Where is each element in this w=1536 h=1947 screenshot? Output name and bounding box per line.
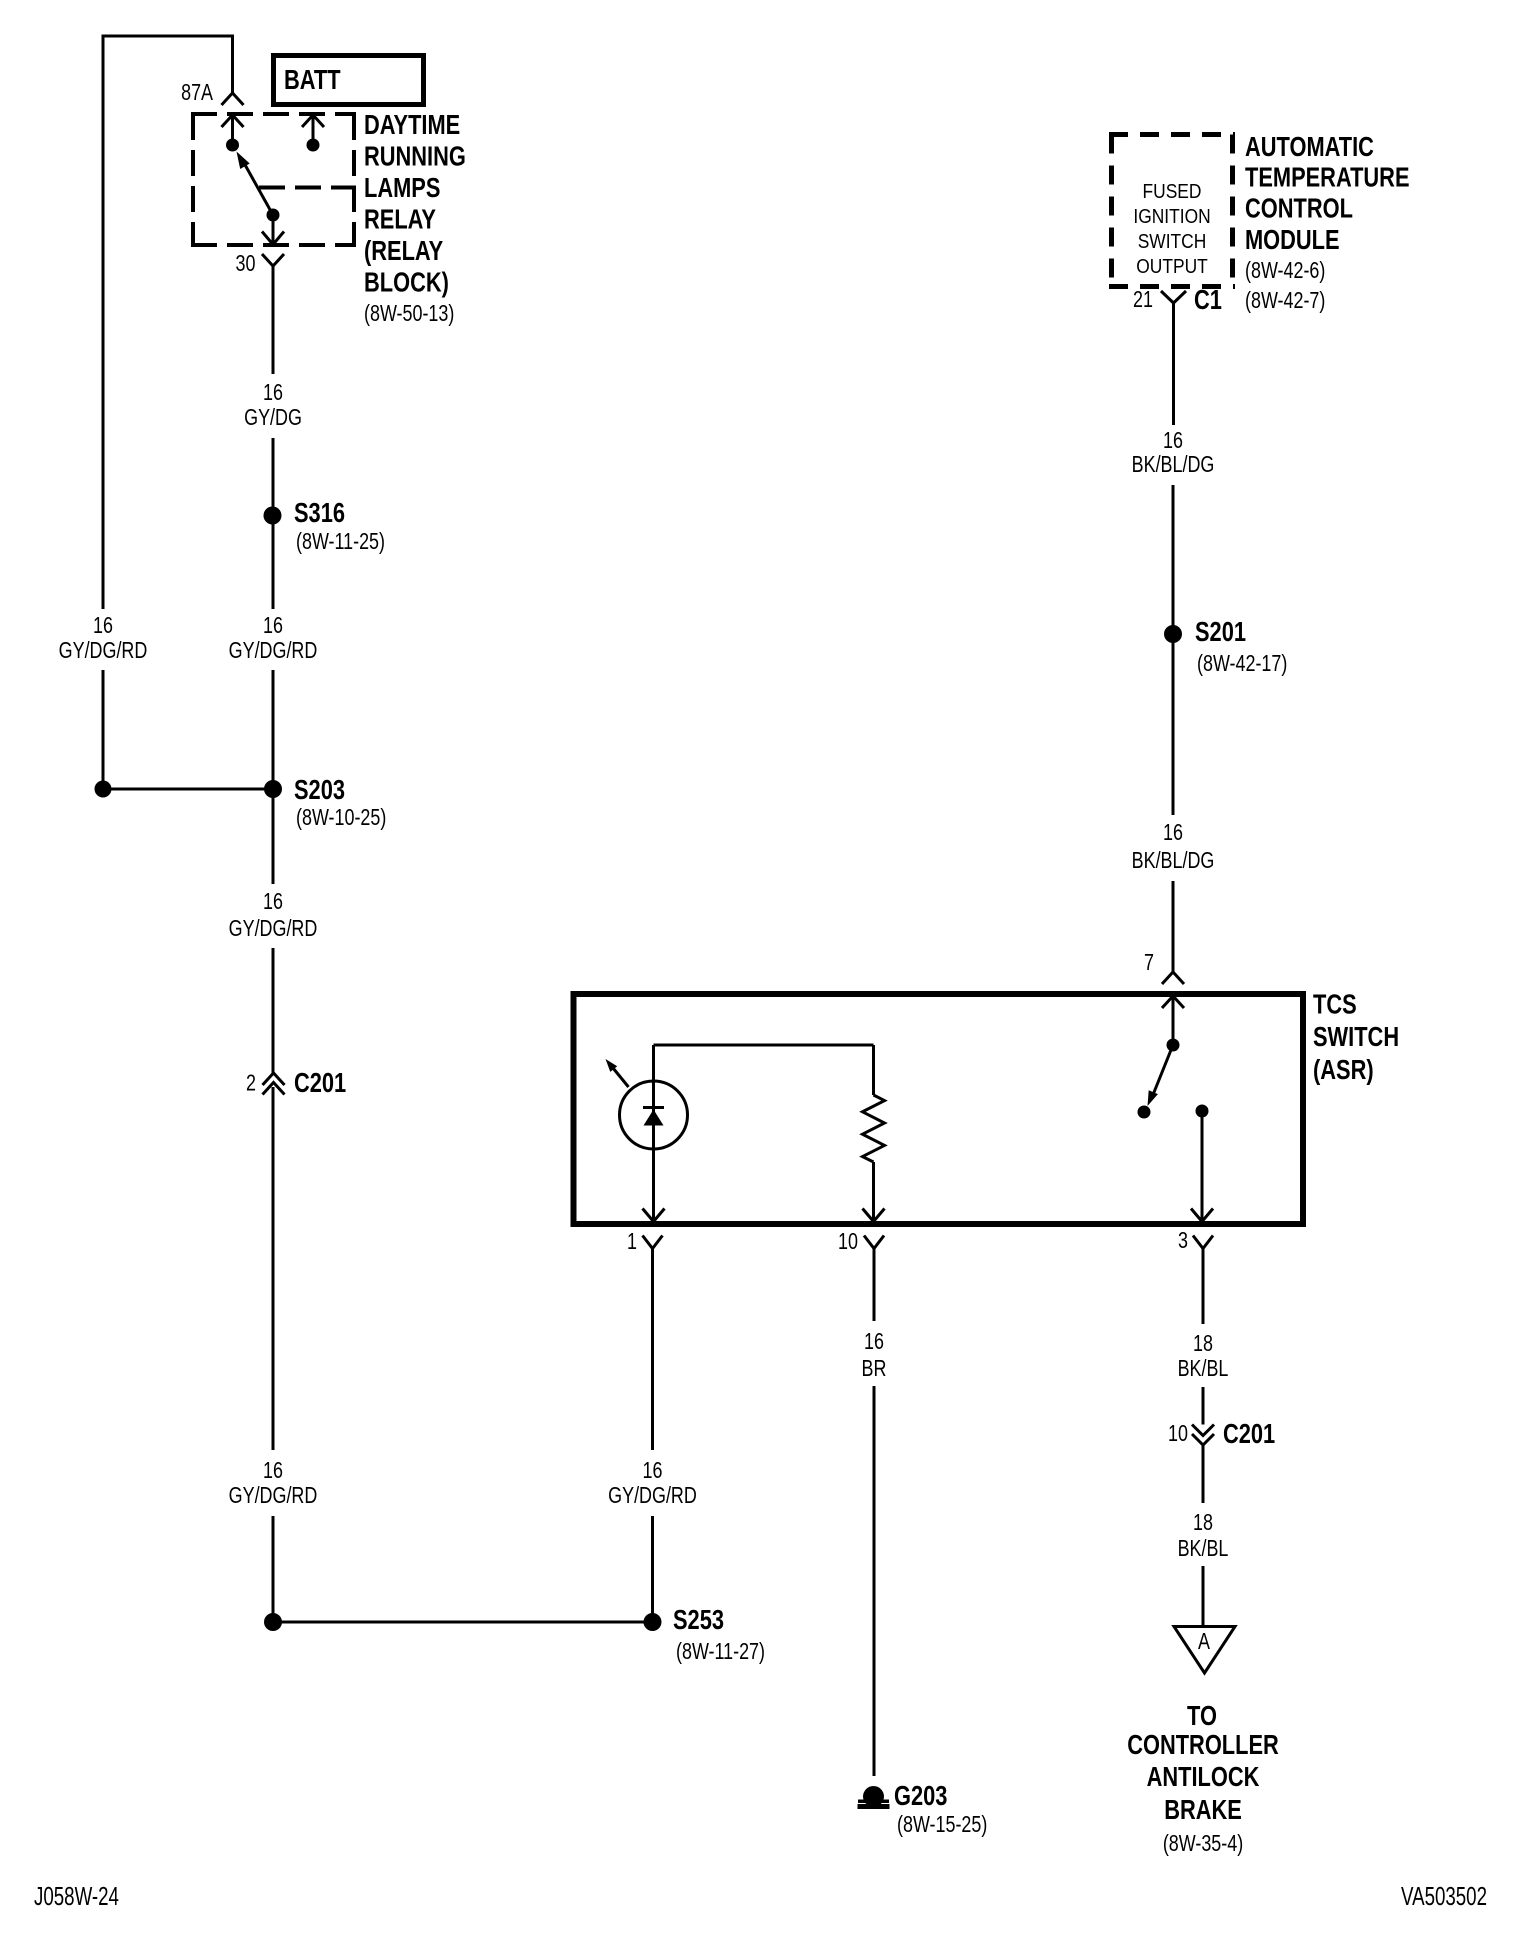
svg-text:S316: S316 — [294, 497, 345, 528]
wire segment from C201 down — [272, 1087, 275, 1450]
lamp internal wire — [652, 1045, 655, 1221]
relay K1 dashed outline left edge — [191, 114, 195, 245]
svg-text:BK/BL: BK/BL — [1178, 1536, 1229, 1562]
svg-text:10: 10 — [838, 1229, 858, 1255]
svg-text:18: 18 — [1193, 1510, 1213, 1536]
svg-text:16: 16 — [1163, 820, 1183, 846]
svg-text:(8W-10-25): (8W-10-25) — [296, 805, 386, 831]
svg-text:(ASR): (ASR) — [1313, 1054, 1374, 1085]
wire segment to connector C201 pin 2 — [272, 948, 275, 1073]
switch arm with arrowhead — [1153, 1045, 1174, 1096]
svg-text:GY/DG/RD: GY/DG/RD — [608, 1483, 697, 1509]
pin 10 arrow at box bottom edge — [863, 1209, 885, 1222]
wire segment to TCS pin 7 — [1172, 881, 1175, 972]
svg-text:(8W-50-13): (8W-50-13) — [364, 301, 454, 327]
splice S253 dot — [644, 1613, 662, 1631]
svg-text:BK/BL/DG: BK/BL/DG — [1132, 452, 1215, 478]
svg-text:CONTROL: CONTROL — [1245, 193, 1353, 224]
svg-text:OUTPUT: OUTPUT — [1136, 255, 1208, 277]
wire segment to S253 corner — [272, 1516, 275, 1624]
switch pin 7 male arrow inside box — [1162, 996, 1184, 1008]
relay K1 daytime running lamps relay dashed outline top edge — [191, 112, 356, 116]
relay K1 dashed outline bottom edge — [191, 243, 356, 247]
svg-text:1: 1 — [627, 1229, 637, 1255]
svg-text:2: 2 — [246, 1071, 256, 1097]
relay common contact dot — [267, 209, 280, 222]
wire pin 10 branch lower — [873, 1386, 876, 1776]
svg-text:LAMPS: LAMPS — [364, 172, 440, 203]
wire S253 horizontal tie — [273, 1621, 653, 1624]
TCS switch box outline — [574, 994, 1304, 1224]
svg-text:G203: G203 — [894, 1780, 947, 1811]
svg-text:87A: 87A — [181, 80, 213, 106]
svg-text:BATT: BATT — [284, 64, 341, 95]
wire S203 horizontal tie — [103, 788, 273, 791]
svg-text:21: 21 — [1133, 287, 1153, 313]
svg-text:BK/BL/DG: BK/BL/DG — [1132, 848, 1215, 874]
svg-text:GY/DG/RD: GY/DG/RD — [229, 916, 318, 942]
switch lower left contact dot — [1138, 1106, 1151, 1119]
wire resistor bottom lead — [872, 1162, 875, 1221]
svg-text:RELAY: RELAY — [364, 204, 436, 235]
connector female half pin 3 — [1193, 1236, 1213, 1249]
wire segment to splice S201 — [1172, 485, 1175, 634]
wire from right contact to pin 3 — [1201, 1111, 1204, 1221]
in-line connector C201 pin 10 double chevron — [1192, 1425, 1214, 1436]
svg-text:18: 18 — [1193, 1331, 1213, 1357]
switch upper contact dot — [1167, 1039, 1180, 1052]
svg-text:VA503502: VA503502 — [1401, 1881, 1487, 1911]
wire segment below S203 — [272, 789, 275, 884]
svg-text:J058W-24: J058W-24 — [34, 1881, 119, 1911]
svg-text:10: 10 — [1168, 1421, 1188, 1447]
svg-text:(8W-11-27): (8W-11-27) — [676, 1639, 765, 1665]
relay pin 87A male arrow into relay — [222, 115, 244, 127]
relay pin 30 arrow to bottom edge — [272, 215, 275, 244]
wire top horizontal from left branch to relay pin 87A — [102, 35, 235, 38]
pin 1 arrow at box bottom edge — [643, 1209, 665, 1222]
wire segment below C201 — [1202, 1445, 1205, 1503]
svg-text:16: 16 — [864, 1329, 884, 1355]
relay K1 dashed outline right edge — [352, 114, 356, 245]
connector female half pin 1 — [643, 1236, 663, 1249]
svg-text:TO: TO — [1187, 1700, 1217, 1731]
svg-text:S201: S201 — [1195, 616, 1246, 647]
svg-text:GY/DG: GY/DG — [244, 405, 302, 431]
connector female half at relay pin 30 — [262, 254, 284, 266]
svg-text:DAYTIME: DAYTIME — [364, 109, 460, 140]
svg-text:AUTOMATIC: AUTOMATIC — [1245, 131, 1374, 162]
svg-text:3: 3 — [1178, 1228, 1188, 1254]
relay switch arm with arrowhead toward 87A contact — [244, 163, 273, 215]
indicator lamp circle — [620, 1081, 688, 1149]
wire segment to off-page triangle — [1202, 1566, 1205, 1627]
svg-text:SWITCH: SWITCH — [1313, 1021, 1399, 1052]
wire bus from lamp to resistor — [654, 1044, 874, 1047]
splice S201 dot — [1164, 625, 1182, 643]
svg-text:GY/DG/RD: GY/DG/RD — [229, 1483, 318, 1509]
in-line connector C201 pin 2 double chevron — [263, 1073, 285, 1085]
pin 3 arrow at box bottom edge — [1191, 1209, 1213, 1222]
svg-text:16: 16 — [93, 613, 113, 639]
svg-text:MODULE: MODULE — [1245, 224, 1340, 255]
svg-text:16: 16 — [263, 613, 283, 639]
svg-text:S203: S203 — [294, 774, 345, 805]
off-page connector triangle A — [1174, 1627, 1235, 1674]
power feed box BATT — [274, 56, 424, 105]
svg-text:BR: BR — [862, 1356, 887, 1382]
svg-text:RUNNING: RUNNING — [364, 141, 466, 172]
indicator arrow on lamp — [613, 1068, 629, 1087]
relay pin from BATT male arrow — [302, 115, 324, 127]
svg-text:SWITCH: SWITCH — [1138, 230, 1207, 252]
node junction dot at left end of S203 tie — [95, 781, 112, 798]
svg-text:S253: S253 — [673, 1604, 724, 1635]
svg-text:IGNITION: IGNITION — [1133, 205, 1210, 227]
wire segment below S201 — [1172, 634, 1175, 815]
svg-text:GY/DG/RD: GY/DG/RD — [229, 638, 318, 664]
svg-text:(8W-42-6): (8W-42-6) — [1245, 258, 1325, 284]
wire left vertical branch upper segment — [102, 35, 105, 610]
svg-text:C1: C1 — [1194, 284, 1222, 315]
wire drop to relay pin 87A — [231, 36, 234, 93]
svg-text:ANTILOCK: ANTILOCK — [1147, 1761, 1260, 1792]
svg-text:7: 7 — [1144, 950, 1154, 976]
svg-text:GY/DG/RD: GY/DG/RD — [59, 638, 148, 664]
svg-text:TCS: TCS — [1313, 989, 1357, 1020]
LED triangle — [644, 1110, 664, 1126]
wire segment below S316 — [272, 524, 275, 609]
svg-text:16: 16 — [263, 380, 283, 406]
svg-text:A: A — [1198, 1629, 1210, 1655]
connector female half pin 10 — [864, 1236, 884, 1249]
wire left vertical branch lower segment — [102, 670, 105, 791]
svg-text:(8W-11-25): (8W-11-25) — [296, 529, 385, 555]
svg-text:(8W-42-17): (8W-42-17) — [1197, 651, 1287, 677]
svg-text:(8W-42-7): (8W-42-7) — [1245, 288, 1325, 314]
svg-text:BRAKE: BRAKE — [1164, 1794, 1242, 1825]
switch right contact dot — [1196, 1105, 1209, 1118]
wire pin 1 branch upper — [651, 1249, 654, 1451]
wire resistor top lead — [872, 1045, 875, 1095]
svg-text:16: 16 — [263, 889, 283, 915]
splice S203 dot — [264, 780, 282, 798]
connector female half at TCS pin 7 — [1162, 972, 1184, 984]
svg-text:16: 16 — [643, 1458, 663, 1484]
svg-text:C201: C201 — [294, 1067, 346, 1098]
ground G203 symbol — [863, 1786, 884, 1807]
svg-text:BLOCK): BLOCK) — [364, 267, 449, 298]
relay contact dot BATT pin — [307, 139, 320, 152]
wire from relay pin 30 segment 1 — [272, 266, 275, 374]
svg-text:(8W-15-25): (8W-15-25) — [897, 1812, 987, 1838]
module ATC dashed box — [1109, 132, 1235, 137]
svg-text:CONTROLLER: CONTROLLER — [1127, 1729, 1279, 1760]
connector female half at relay pin 87A — [222, 93, 244, 105]
LED cathode bar — [643, 1106, 664, 1109]
svg-text:16: 16 — [1163, 428, 1183, 454]
wire pin 3 branch segment 1 — [1202, 1249, 1205, 1325]
wire segment to splice S203 — [272, 670, 275, 789]
svg-text:FUSED: FUSED — [1143, 180, 1202, 202]
wire segment to splice S316 — [272, 438, 275, 516]
splice S316 dot — [264, 507, 282, 525]
wire pin 10 branch upper — [873, 1249, 876, 1322]
wire pin 1 branch lower — [651, 1516, 654, 1622]
svg-text:C201: C201 — [1223, 1418, 1275, 1449]
connector female half at module pin 21 C1 — [1161, 291, 1186, 303]
svg-text:(RELAY: (RELAY — [364, 235, 443, 266]
relay K1 inner dashed partition line — [259, 186, 356, 190]
svg-text:TEMPERATURE: TEMPERATURE — [1245, 162, 1410, 193]
wire from C1 segment 1 — [1172, 318, 1175, 425]
resistor zigzag — [863, 1095, 885, 1162]
svg-text:30: 30 — [236, 251, 256, 277]
relay contact dot pin 87A — [226, 139, 239, 152]
svg-text:16: 16 — [263, 1458, 283, 1484]
svg-text:BK/BL: BK/BL — [1178, 1356, 1229, 1382]
svg-text:(8W-35-4): (8W-35-4) — [1163, 1831, 1243, 1857]
node junction dot left end of S253 tie — [264, 1613, 282, 1631]
wire segment to connector C201 pin 10 — [1202, 1387, 1205, 1425]
